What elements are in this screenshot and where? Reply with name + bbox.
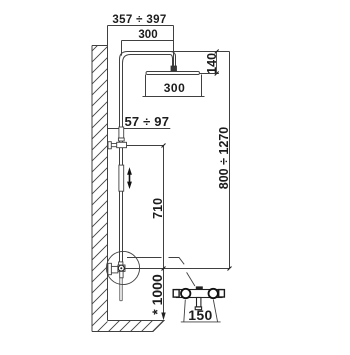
dim 357-397 line bbox=[108, 26, 174, 67]
top diverter tab bbox=[196, 287, 202, 290]
right knob bbox=[209, 289, 218, 298]
svg-text:300: 300 bbox=[164, 81, 186, 95]
riser pipe bbox=[120, 60, 123, 263]
dim 150 bbox=[181, 300, 221, 322]
svg-text:140: 140 bbox=[205, 53, 219, 74]
detail circle bbox=[106, 251, 139, 284]
left knob bbox=[181, 289, 190, 298]
dim 800-1270 vertical bbox=[229, 52, 231, 269]
wall bracket plate bbox=[108, 142, 111, 149]
arm curve outer bbox=[120, 52, 230, 60]
dim 57-97 line bbox=[108, 128, 171, 130]
sliding sleeve bbox=[119, 165, 124, 191]
dim 300 top line bbox=[122, 41, 174, 56]
enlarged mixer: body bar bbox=[177, 290, 223, 298]
floor outline bbox=[92, 321, 164, 332]
arm curve inner bbox=[123, 55, 173, 67]
upper connector sleeve bbox=[119, 127, 124, 138]
svg-text:357 ÷ 397: 357 ÷ 397 bbox=[112, 14, 166, 26]
mixer knob circle bbox=[118, 265, 124, 271]
bottom spout bbox=[197, 298, 201, 307]
wall hatching bbox=[80, 23, 120, 349]
mixer valve small: wall flange bbox=[108, 263, 112, 274]
svg-text:57 ÷ 97: 57 ÷ 97 bbox=[124, 114, 169, 129]
right union bbox=[219, 290, 225, 297]
arrow to floor bbox=[161, 313, 165, 321]
shower head plate bbox=[146, 72, 200, 75]
dim 710 / 1000 vertical bbox=[127, 146, 164, 318]
elbow outer bbox=[171, 52, 176, 67]
dim 140 bbox=[200, 52, 219, 74]
bracket hub bbox=[117, 142, 127, 147]
mixer bottom tab bbox=[120, 271, 123, 277]
mixer knob square bbox=[118, 265, 125, 271]
mixer body bbox=[111, 266, 118, 273]
left union bbox=[173, 290, 179, 298]
svg-text:300: 300 bbox=[138, 29, 157, 41]
ticks at junctions bbox=[162, 144, 232, 271]
svg-text:710: 710 bbox=[151, 198, 165, 219]
dim 300 head box bbox=[143, 75, 205, 97]
wall outline bbox=[92, 46, 108, 332]
leader line to detail bbox=[127, 258, 195, 287]
svg-text:150: 150 bbox=[188, 307, 212, 323]
adjustment arrow bbox=[129, 172, 131, 185]
svg-text:* 1000: * 1000 bbox=[149, 274, 165, 315]
svg-text:800 ÷ 1270: 800 ÷ 1270 bbox=[217, 127, 231, 190]
floor hatching bbox=[104, 316, 179, 336]
mixer top tab bbox=[119, 262, 123, 265]
shower stem nut bbox=[171, 66, 177, 71]
mixer level line bbox=[125, 268, 230, 270]
